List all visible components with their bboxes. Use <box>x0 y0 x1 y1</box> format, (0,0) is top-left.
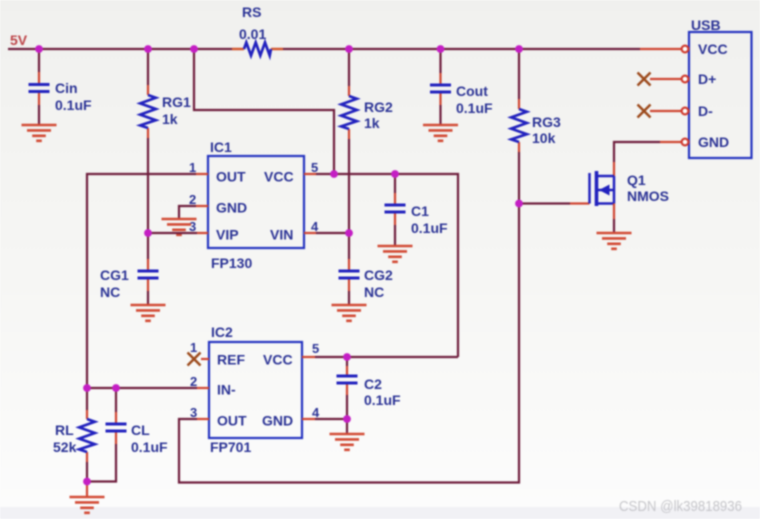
junction VIP RG1 <box>144 229 152 237</box>
svg-text:5V: 5V <box>10 32 28 48</box>
junction IC2 GND C2 <box>343 415 351 423</box>
svg-text:3: 3 <box>189 219 196 234</box>
svg-text:GND: GND <box>262 413 293 429</box>
capacitor C2 <box>337 357 402 419</box>
pin D- terminal <box>682 108 689 115</box>
ground for RL/CL <box>70 497 105 513</box>
svg-text:VCC: VCC <box>698 41 728 57</box>
bottom band <box>0 507 760 519</box>
pin D+ terminal <box>682 76 689 83</box>
ground for CG2 <box>332 305 367 321</box>
svg-text:D-: D- <box>698 103 713 119</box>
wire D+ stub <box>650 78 682 80</box>
svg-text:IN-: IN- <box>217 382 236 398</box>
wire C2 ground stub <box>346 419 348 434</box>
op-amp IC2 body <box>209 324 302 455</box>
junction left node RL <box>83 384 91 392</box>
capacitor CL <box>87 388 168 482</box>
wire sense tap left (rail to IC1 VCC) <box>194 49 334 174</box>
svg-text:Cin: Cin <box>55 80 78 96</box>
svg-text:3: 3 <box>190 405 197 420</box>
no-connect X on IC2 REF pin1 <box>201 358 209 360</box>
junction rail tap <box>190 45 198 53</box>
svg-text:OUT: OUT <box>216 169 246 185</box>
ground for C1 <box>378 246 413 262</box>
ground for IC1 GND pin <box>162 219 197 235</box>
svg-text:CG1: CG1 <box>100 267 129 283</box>
resistor RS <box>232 4 283 56</box>
capacitor Cin <box>29 49 93 125</box>
svg-text:CSDN @lk39818936: CSDN @lk39818936 <box>619 498 742 515</box>
ground for Cout <box>423 125 458 141</box>
ground for C2 <box>330 434 365 450</box>
svg-text:GND: GND <box>698 134 729 150</box>
svg-text:Q1: Q1 <box>627 172 646 188</box>
wire 5V rail left of RS <box>8 48 232 50</box>
svg-text:4: 4 <box>311 219 319 234</box>
svg-text:0.1uF: 0.1uF <box>131 439 168 455</box>
ground for Q1 source <box>597 233 632 249</box>
junction VIN RG2 <box>345 229 353 237</box>
wire IC1 VCC pin5 run <box>304 173 316 175</box>
svg-text:5: 5 <box>312 341 319 356</box>
resistor RG1 <box>140 49 191 138</box>
svg-text:IC1: IC1 <box>210 139 232 155</box>
wire IC2 OUT pin3 lead <box>197 418 209 420</box>
capacitor CG2 <box>339 233 394 305</box>
ground for CG1 <box>131 305 166 321</box>
svg-text:NC: NC <box>100 284 120 300</box>
svg-text:C2: C2 <box>364 376 382 392</box>
wire IC1 VIP pin3 <box>197 232 208 234</box>
svg-text:RL: RL <box>55 422 74 438</box>
svg-text:VCC: VCC <box>263 352 293 368</box>
svg-text:RG2: RG2 <box>364 99 393 115</box>
junction rail Cin <box>35 45 43 53</box>
svg-text:RS: RS <box>242 4 261 20</box>
resistor RG3 <box>511 49 561 152</box>
junction rail RG1 <box>144 45 152 53</box>
wire 5V rail right of RS <box>283 48 640 50</box>
junction IC2 VCC C2 <box>343 353 351 361</box>
pin GND terminal <box>682 139 689 146</box>
wire Q1 source to ground <box>613 204 615 220</box>
wire rail lead to USB VCC <box>640 48 682 50</box>
svg-text:USB: USB <box>691 17 721 33</box>
svg-text:C1: C1 <box>411 203 429 219</box>
wire IC1 GND pin2 <box>196 205 208 207</box>
svg-text:2: 2 <box>190 374 197 389</box>
wire D- stub <box>650 110 682 112</box>
svg-text:2: 2 <box>189 192 196 207</box>
wire GND pin to Q1 drain <box>660 141 682 143</box>
connector USB <box>689 17 752 158</box>
svg-text:D+: D+ <box>698 71 716 87</box>
svg-text:1: 1 <box>189 160 196 175</box>
svg-text:1k: 1k <box>162 111 178 127</box>
svg-text:Cout: Cout <box>456 83 488 99</box>
wire RG2 to VIN node <box>348 139 350 233</box>
svg-text:IC2: IC2 <box>211 324 233 340</box>
pin VCC terminal <box>682 46 689 53</box>
resistor RL <box>53 388 95 482</box>
ground for Cin <box>22 125 57 141</box>
no-connect X on D+ <box>638 73 651 86</box>
capacitor CG1 <box>100 233 159 305</box>
svg-text:FP701: FP701 <box>210 439 251 455</box>
wire left node to CL <box>87 387 116 389</box>
wire IC1 OUT pin1 to left column <box>196 173 208 175</box>
wire RG3 to gate node <box>518 152 520 204</box>
junction gate node <box>515 200 523 208</box>
svg-text:VIN: VIN <box>270 227 293 243</box>
svg-text:NC: NC <box>364 284 384 300</box>
svg-text:NMOS: NMOS <box>627 188 669 204</box>
svg-text:52k: 52k <box>53 439 77 455</box>
svg-text:FP130: FP130 <box>211 255 252 271</box>
svg-text:CG2: CG2 <box>364 267 393 283</box>
svg-text:1: 1 <box>190 340 197 355</box>
wire RL bottom to ground <box>86 482 88 498</box>
svg-text:RG1: RG1 <box>162 94 191 110</box>
resistor RG2 <box>341 49 393 139</box>
junction rail Cout <box>437 45 445 53</box>
svg-text:1k: 1k <box>364 115 380 131</box>
svg-text:OUT: OUT <box>217 413 247 429</box>
svg-text:0.1uF: 0.1uF <box>364 392 401 408</box>
svg-text:0.01: 0.01 <box>239 26 266 42</box>
wire gate node down and feedback loop to IC2 OUT <box>179 204 519 483</box>
svg-text:0.1uF: 0.1uF <box>55 97 92 113</box>
junction VCC run left <box>330 170 338 178</box>
svg-text:CL: CL <box>131 422 150 438</box>
svg-text:5: 5 <box>311 160 318 175</box>
svg-text:0.1uF: 0.1uF <box>456 100 493 116</box>
svg-text:0.1uF: 0.1uF <box>411 220 448 236</box>
junction left node CL <box>112 384 120 392</box>
junction rail RG3 <box>515 45 523 53</box>
op-amp IC1 body <box>208 139 304 271</box>
svg-text:4: 4 <box>312 405 320 420</box>
wire IC2 VCC pin5 <box>302 356 315 358</box>
svg-text:REF: REF <box>217 352 245 368</box>
svg-text:GND: GND <box>216 200 247 216</box>
transistor Q1 NMOS <box>590 171 670 206</box>
wire IC2 IN- pin2 <box>197 387 209 389</box>
svg-text:RG3: RG3 <box>532 114 561 130</box>
junction VCC run C1 <box>391 170 399 178</box>
wire gate branch <box>519 202 570 204</box>
svg-text:VIP: VIP <box>216 227 239 243</box>
wire IC1 VIN pin4 <box>304 232 316 234</box>
junction rail RG2 <box>345 45 353 53</box>
wire RG1 to VIP node <box>147 138 149 233</box>
wire IC2 GND pin4 <box>302 418 315 420</box>
svg-text:10k: 10k <box>532 130 556 146</box>
capacitor Cout <box>430 49 493 125</box>
no-connect X on D- <box>638 105 651 118</box>
capacitor C1 <box>385 174 449 246</box>
svg-text:VCC: VCC <box>264 169 294 185</box>
junction RL bottom <box>83 478 91 486</box>
